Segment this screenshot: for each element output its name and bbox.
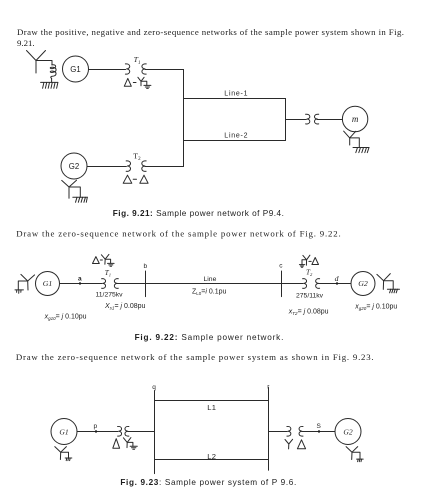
wire T2 to bus bbox=[145, 166, 184, 168]
G2 neutral wye bbox=[62, 180, 77, 198]
node p bbox=[94, 423, 98, 433]
svg-text:q: q bbox=[152, 384, 156, 391]
node d bbox=[335, 274, 339, 285]
svg-text:Draw the zero-sequence network: Draw the zero-sequence network of the sa… bbox=[16, 352, 375, 362]
svg-text:Draw the zero-sequence network: Draw the zero-sequence network of the sa… bbox=[16, 229, 341, 239]
transformer T2 bbox=[126, 152, 146, 172]
svg-text:xT2= j 0.08pu: xT2= j 0.08pu bbox=[288, 309, 329, 317]
wire bus to motor transformer bbox=[286, 119, 307, 121]
svg-text:xg10= j 0.10pu: xg10= j 0.10pu bbox=[44, 314, 87, 322]
wire G1 to transformer bbox=[77, 431, 118, 433]
wire to left earth bbox=[18, 281, 27, 290]
wire to G1 ground bbox=[61, 452, 69, 458]
bus q bbox=[152, 384, 156, 473]
wire transformer to G2 bbox=[302, 431, 335, 433]
G1 ground bbox=[65, 458, 72, 461]
generator G2 bbox=[335, 419, 361, 445]
T-left winding labels delta wye-earth bbox=[113, 438, 138, 450]
wire G1 to T1 bbox=[60, 283, 102, 285]
motor neutral wye bbox=[344, 131, 356, 145]
svg-text:T2: T2 bbox=[306, 269, 313, 278]
svg-text:T1: T1 bbox=[105, 269, 111, 278]
wire T1 to bus bbox=[145, 69, 184, 71]
motor m bbox=[342, 106, 367, 131]
T-right winding labels wye delta bbox=[285, 439, 306, 449]
wire T1 to bus b bbox=[117, 283, 145, 285]
svg-text:G2: G2 bbox=[343, 427, 352, 436]
generator G1 bbox=[51, 419, 77, 445]
svg-text:Line-2: Line-2 bbox=[224, 132, 248, 139]
generator G1 bbox=[36, 272, 60, 296]
Line-1 bbox=[184, 91, 286, 99]
right ground bbox=[387, 289, 399, 293]
wire transformer to bus q bbox=[128, 431, 155, 433]
svg-text:m: m bbox=[352, 114, 359, 124]
svg-text:G1: G1 bbox=[59, 427, 68, 436]
svg-text:Draw the positive, negative an: Draw the positive, negative and zero-seq… bbox=[17, 27, 404, 37]
G2 wye symbol bbox=[377, 274, 390, 290]
Line-2 bbox=[184, 132, 286, 140]
svg-text:Line: Line bbox=[204, 276, 217, 283]
T1 winding labels delta-wye with earth bbox=[124, 77, 151, 88]
svg-text:G2: G2 bbox=[69, 162, 79, 171]
left bus bbox=[183, 70, 185, 167]
G1 neutral wye bbox=[55, 447, 67, 460]
right bus bbox=[285, 99, 287, 141]
svg-text:9.21.: 9.21. bbox=[17, 38, 35, 48]
svg-text:L1: L1 bbox=[207, 403, 216, 412]
bus c bbox=[279, 263, 283, 297]
wire to right ground bbox=[384, 281, 394, 289]
G1 neutral wye bbox=[27, 51, 46, 74]
T1 winding labels delta-wye with earth bbox=[93, 254, 115, 266]
svg-text:p: p bbox=[94, 423, 98, 430]
Line b-c bbox=[146, 276, 282, 296]
bus b bbox=[144, 263, 148, 297]
generator G2 bbox=[61, 153, 87, 179]
generator G2 bbox=[351, 272, 375, 296]
transformer T-right bbox=[287, 426, 303, 436]
svg-text:Fig. 9.21: Sample power networ: Fig. 9.21: Sample power network of P9.4. bbox=[113, 209, 285, 218]
svg-text:b: b bbox=[144, 263, 148, 270]
PARAGRAPH-1 bbox=[17, 27, 404, 48]
node S bbox=[317, 423, 322, 433]
ground (hatched) bbox=[41, 82, 58, 88]
line L1 bbox=[155, 401, 269, 413]
G2 ground bbox=[73, 197, 88, 202]
wire to G2 ground bbox=[69, 187, 80, 197]
G1 wye symbol bbox=[21, 274, 35, 290]
wire G1 to T1 bbox=[89, 69, 126, 71]
transformer T2 bbox=[303, 269, 320, 289]
node a bbox=[78, 276, 82, 285]
svg-text:ZL0=i 0.1pu: ZL0=i 0.1pu bbox=[192, 288, 227, 296]
transformer T1 bbox=[125, 55, 146, 74]
left earth bbox=[15, 290, 23, 293]
G2 neutral wye bbox=[346, 447, 358, 460]
wire transformer to motor bbox=[317, 119, 342, 121]
wire bus r to transformer bbox=[269, 431, 288, 433]
line L2 bbox=[155, 452, 269, 461]
wire G2 to T2 bbox=[87, 166, 126, 168]
svg-text:Xs1= j 0.08pu: Xs1= j 0.08pu bbox=[104, 303, 146, 311]
svg-text:c: c bbox=[279, 263, 283, 270]
grounding reactor coil bbox=[50, 65, 56, 79]
motor transformer bbox=[306, 114, 319, 124]
svg-text:G1: G1 bbox=[70, 65, 80, 74]
bus r bbox=[267, 384, 270, 471]
wire to motor ground bbox=[350, 138, 360, 148]
svg-text:275/11kv: 275/11kv bbox=[296, 292, 324, 299]
wire bbox=[51, 78, 53, 82]
svg-text:Fig. 9.22: Sample power networ: Fig. 9.22: Sample power network. bbox=[135, 333, 285, 342]
motor ground bbox=[353, 148, 369, 153]
svg-text:Line-1: Line-1 bbox=[224, 91, 248, 98]
wire bus c to T2 bbox=[282, 283, 303, 285]
svg-text:S: S bbox=[317, 423, 322, 430]
svg-text:T2: T2 bbox=[133, 152, 141, 163]
transformer T-left bbox=[118, 426, 129, 436]
T2 winding labels earth-wye-delta bbox=[299, 255, 318, 267]
svg-text:a: a bbox=[78, 276, 82, 283]
svg-text:L2: L2 bbox=[207, 452, 216, 461]
wire wye to reactor bbox=[36, 61, 52, 66]
generator G1 bbox=[63, 56, 89, 82]
svg-text:G1: G1 bbox=[43, 279, 53, 288]
svg-text:11/275kv: 11/275kv bbox=[96, 291, 124, 298]
svg-text:r: r bbox=[267, 384, 270, 391]
svg-text:d: d bbox=[335, 274, 339, 283]
svg-text:G2: G2 bbox=[358, 279, 368, 288]
svg-text:T1: T1 bbox=[134, 55, 141, 66]
wire T2 to G2 bbox=[319, 283, 352, 285]
svg-text:xg20= j 0.10pu: xg20= j 0.10pu bbox=[354, 303, 397, 311]
svg-text:Fig. 9.23: Sample power system: Fig. 9.23: Sample power system of P 9.6. bbox=[120, 478, 297, 487]
wire to G2 ground bbox=[352, 452, 360, 459]
G2 ground bbox=[357, 459, 364, 462]
T2 winding labels delta-delta bbox=[123, 175, 148, 183]
transformer T1 bbox=[102, 269, 119, 288]
